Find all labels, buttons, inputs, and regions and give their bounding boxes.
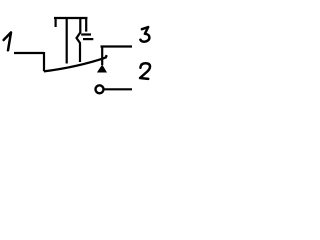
plunger stem bbox=[66, 17, 68, 64]
open contact circle (pin 2) bbox=[96, 85, 104, 93]
wire pin 2 bbox=[104, 88, 132, 90]
latch bracket right leg bbox=[85, 17, 87, 32]
pin label 2 bbox=[140, 63, 150, 79]
cap left leg bbox=[54, 17, 56, 27]
lever contact tip bbox=[105, 55, 106, 58]
contact post bbox=[101, 47, 103, 66]
wire pin 3 bbox=[101, 45, 133, 47]
wire corner down bbox=[43, 52, 45, 71]
latch dash lower bbox=[83, 38, 93, 40]
latch dash upper bbox=[81, 33, 91, 35]
spring / latch zigzag line bbox=[77, 17, 81, 62]
switch lever (pole) bbox=[44, 58, 105, 72]
button cap bar bbox=[54, 17, 87, 19]
pin label 3 bbox=[140, 27, 149, 42]
pushbutton switch schematic symbol bbox=[0, 0, 160, 119]
fixed contact wedge bbox=[97, 65, 107, 73]
pin label 1 bbox=[4, 32, 11, 50]
wire pin 1 bbox=[14, 52, 44, 54]
